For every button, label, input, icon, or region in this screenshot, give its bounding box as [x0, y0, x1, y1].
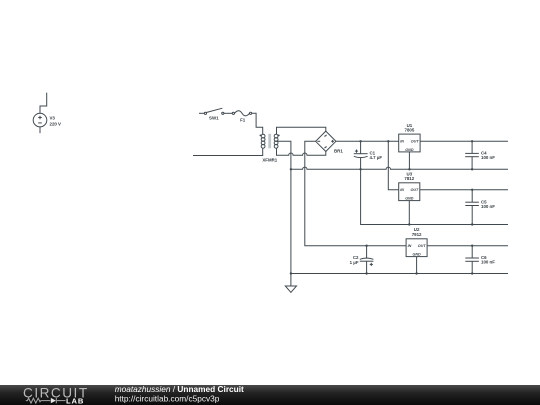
- ground rail: [291, 273, 508, 275]
- capacitor C2: [360, 246, 374, 274]
- svg-text:IN: IN: [400, 140, 404, 144]
- transformer XFMR1: [260, 134, 280, 148]
- svg-text:GND: GND: [412, 253, 421, 257]
- svg-text:SW1: SW1: [209, 116, 219, 121]
- svg-text:OUT: OUT: [418, 244, 427, 248]
- svg-text:1 µF: 1 µF: [350, 260, 359, 265]
- svg-text:XFMR1: XFMR1: [262, 158, 277, 163]
- wire secondary top to bridge top: [277, 127, 326, 134]
- ground line 1 (with hops): [291, 167, 508, 169]
- svg-text:IN: IN: [400, 188, 404, 192]
- svg-text:F1: F1: [240, 117, 246, 122]
- svg-text:IN: IN: [408, 244, 412, 248]
- footer bar: [0, 385, 540, 405]
- ground symbol: [285, 274, 296, 293]
- wire primary bottom to left rail: [193, 148, 263, 155]
- capacitor C4: [465, 141, 479, 169]
- capacitor C5: [465, 190, 479, 225]
- fuse F1: [232, 111, 251, 116]
- U3 IN branch from +V rail: [388, 141, 398, 190]
- svg-text:OUT: OUT: [411, 188, 420, 192]
- switch SW1: [199, 108, 232, 114]
- regulator U3 box: [399, 183, 508, 225]
- svg-text:100 nF: 100 nF: [481, 204, 495, 209]
- capacitor C6: [465, 246, 479, 274]
- svg-text:V3: V3: [50, 115, 56, 120]
- CircuitLab logo: [23, 385, 89, 405]
- svg-text:GND: GND: [405, 197, 414, 201]
- svg-text:4.7 µF: 4.7 µF: [370, 155, 383, 160]
- svg-text:LAB: LAB: [66, 397, 84, 405]
- wire bridge minus down to U2 IN: [305, 141, 406, 245]
- svg-text:100 nF: 100 nF: [481, 260, 495, 265]
- svg-text:100 nF: 100 nF: [481, 155, 495, 160]
- wire fuse to transformer primary: [252, 113, 263, 134]
- wire secondary bottom to bridge bottom (with hops): [277, 148, 326, 155]
- svg-text:BR1: BR1: [334, 148, 343, 153]
- wire secondary center tap down: [277, 141, 291, 273]
- bridge rectifier BR1: [316, 131, 336, 151]
- svg-text:7912: 7912: [412, 232, 422, 237]
- junction dots: [290, 140, 474, 275]
- wire bridge plus to U1 IN (+V rail): [336, 140, 399, 142]
- capacitor C1: [354, 141, 368, 169]
- ground branch down to line 2: [361, 169, 508, 224]
- footer text: [115, 384, 244, 403]
- svg-text:http://circuitlab.com/c5pcv3p: http://circuitlab.com/c5pcv3p: [115, 393, 220, 403]
- svg-text:GND: GND: [405, 148, 414, 152]
- voltage source V3: [33, 93, 47, 134]
- regulator U1 box: [399, 134, 508, 169]
- svg-text:220 V: 220 V: [50, 122, 62, 127]
- svg-text:7812: 7812: [404, 176, 414, 181]
- regulator U2 box: [406, 239, 508, 274]
- svg-text:7805: 7805: [405, 127, 415, 132]
- svg-text:OUT: OUT: [411, 140, 420, 144]
